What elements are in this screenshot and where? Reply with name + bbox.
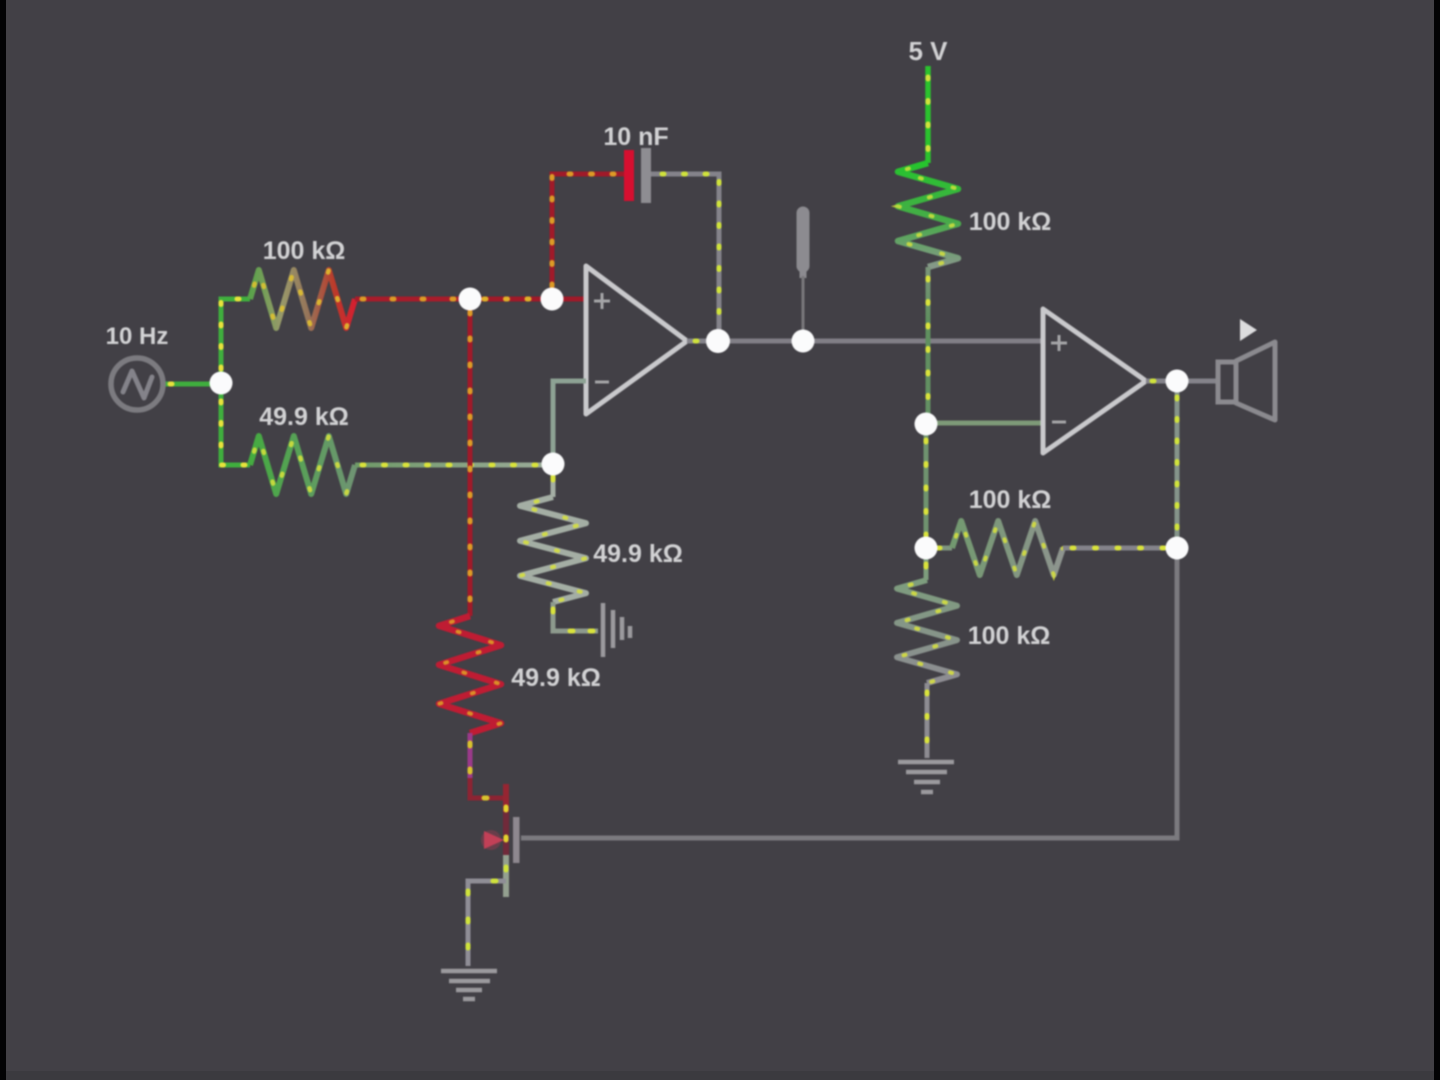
ground G1 <box>898 762 954 792</box>
wire: Q1 source to ground G2 <box>468 881 506 966</box>
node A <box>210 372 233 395</box>
op-amp U1 <box>586 266 687 414</box>
capacitor C1 10 nF <box>624 148 651 203</box>
wire: source to node A <box>163 382 221 387</box>
resistor R3 100 kOhm <box>898 163 958 267</box>
node J <box>1166 370 1189 393</box>
node H <box>915 537 938 560</box>
svg-text:49.9 kΩ: 49.9 kΩ <box>259 403 349 431</box>
node C <box>541 288 564 311</box>
node G <box>915 413 938 436</box>
wire: R2 to node F <box>355 463 553 468</box>
wire: node B to node C <box>470 297 552 302</box>
node I <box>1166 537 1189 560</box>
svg-text:5 V: 5 V <box>908 36 948 66</box>
wire: R5 to Q1 drain <box>470 733 506 798</box>
resistor R7 49.9 kOhm (gray) <box>520 497 586 602</box>
resistor R5 49.9 kOhm (red) <box>439 616 501 733</box>
wire: R6 to ground G1 <box>925 683 930 758</box>
wire: node G down to node H <box>924 424 929 548</box>
svg-text:49.9 kΩ: 49.9 kΩ <box>511 664 601 692</box>
resistor R2 49.9 kOhm <box>250 436 355 494</box>
wire: R1 to node B <box>355 297 470 302</box>
wire: R3 down to node G (crosses output wire) <box>926 267 931 424</box>
wire: node C to op-amp U1 plus input <box>552 297 586 302</box>
op-amp U2 <box>1043 309 1146 453</box>
wire: node B down (red) to R5 <box>468 299 473 616</box>
wire: node H to R4 <box>926 546 952 551</box>
wire: R7 to ground G3 <box>553 602 598 631</box>
wire: node G to U2 minus input <box>926 421 1043 426</box>
wire: node J down to node I (feedback) <box>1175 381 1180 548</box>
voltage source V1 10 Hz <box>111 358 163 410</box>
svg-text:100 kΩ: 100 kΩ <box>263 237 346 265</box>
svg-text:10 Hz: 10 Hz <box>106 323 169 350</box>
svg-text:100 kΩ: 100 kΩ <box>969 208 1052 236</box>
wire: U2 output to node J <box>1146 379 1177 384</box>
svg-text:100 kΩ: 100 kΩ <box>969 486 1052 514</box>
resistor R1 100 kOhm <box>250 270 355 328</box>
transistor Q1 (n-MOSFET) <box>481 784 520 897</box>
wire: U1 minus input to node F <box>553 381 586 464</box>
svg-text:10 nF: 10 nF <box>603 123 668 151</box>
wire: node H to R6 <box>924 548 929 580</box>
resistor R4 100 kOhm <box>952 521 1063 575</box>
node F <box>542 453 565 476</box>
wire: node F to R7 <box>551 464 556 497</box>
scope probe <box>797 213 810 330</box>
wire: node D to node E to U2 plus input <box>718 339 1043 344</box>
svg-text:49.9 kΩ: 49.9 kΩ <box>593 540 683 568</box>
wire: node A up to top row <box>221 299 250 384</box>
wire: node J to speaker <box>1177 379 1218 384</box>
wire: node I down and left to Q1 gate (feedback) <box>521 548 1177 838</box>
wire: capacitor to node D (feedback) <box>651 174 719 330</box>
wire: node A down to lower row <box>221 384 250 465</box>
resistor R6 100 kOhm <box>897 580 957 683</box>
wire: node C up to capacitor (red) <box>552 174 624 299</box>
ground G3 (rotated) <box>603 603 630 657</box>
node B <box>459 288 482 311</box>
node D <box>706 329 730 353</box>
wire: U1 output to node D <box>687 339 718 344</box>
node E <box>792 330 815 353</box>
svg-text:100 kΩ: 100 kΩ <box>968 622 1051 650</box>
wire: 5V supply down to R3 <box>925 66 931 163</box>
wire: R4 to node I <box>1063 546 1177 551</box>
speaker SP1 <box>1218 319 1275 420</box>
ground G2 <box>441 971 497 999</box>
